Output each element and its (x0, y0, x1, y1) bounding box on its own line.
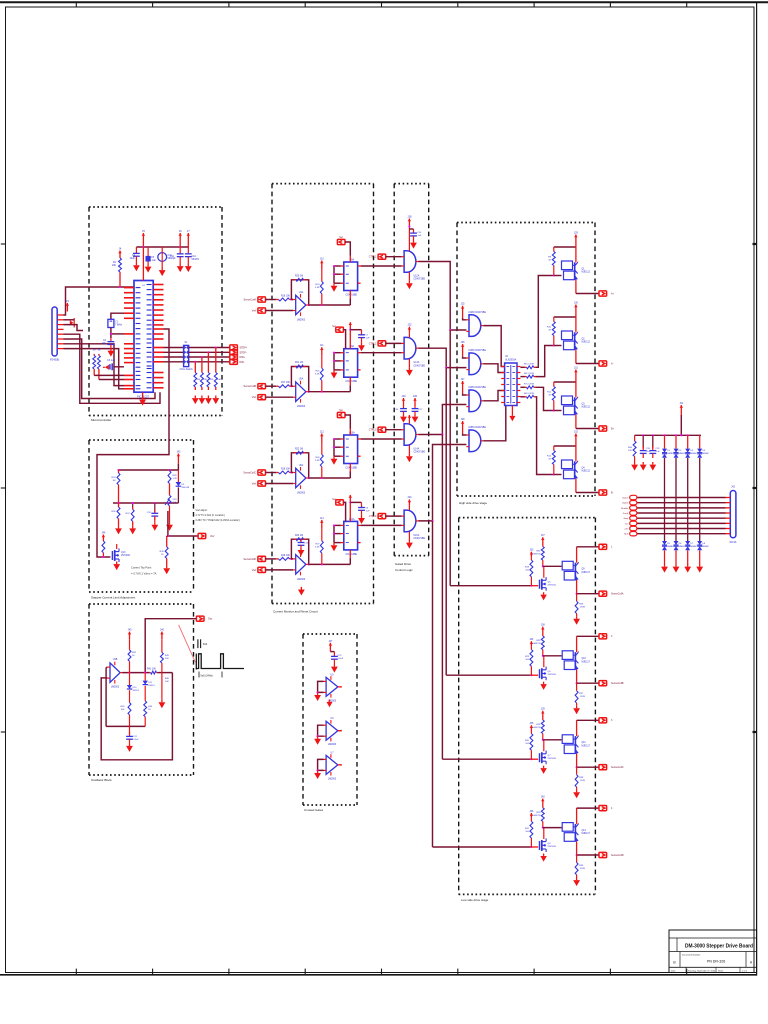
header Set4 (336, 500, 344, 505)
header STEP+ (230, 345, 238, 350)
capacitor C2 (110, 338, 112, 342)
op-amp U4B (110, 663, 120, 683)
svg-text:MMBZ: MMBZ (679, 453, 686, 455)
svg-text:R18 10K: R18 10K (281, 469, 290, 471)
svg-text:U13A: U13A (414, 361, 420, 364)
svg-text:J30: J30 (574, 301, 579, 304)
header DIR+ (230, 354, 238, 359)
junction (576, 593, 578, 595)
wire to inverting input (291, 385, 293, 387)
svg-text:Vref adjust:: Vref adjust: (196, 509, 208, 512)
wire to capacitor (350, 501, 361, 503)
or gate U13B CD4071BE (469, 353, 481, 375)
header P2 (630, 500, 637, 504)
wire J2 pin8 (64, 349, 125, 389)
wire to sense header (577, 682, 600, 684)
transistor Q4 MJD112 (562, 460, 573, 469)
or gate U15B CD4071BE (469, 430, 481, 452)
header B- (599, 490, 607, 495)
capacitor C12 (187, 247, 189, 254)
dip switch S1 (184, 345, 189, 366)
wire collector to header (576, 636, 578, 650)
flip-flop right pins (358, 265, 361, 267)
svg-text:.1uF: .1uF (151, 259, 156, 262)
resistor R43 (129, 690, 131, 702)
svg-text:10K: 10K (628, 450, 632, 452)
wire osc output (145, 619, 196, 674)
svg-text:.1/5W: .1/5W (579, 868, 586, 870)
capacitor C10 (161, 247, 163, 252)
wire input2 (265, 569, 293, 571)
svg-text:.01uF: .01uF (133, 739, 139, 741)
capacitor C9 (361, 502, 363, 507)
header SenseCoilD (258, 556, 266, 561)
diode D1 MMBZ (664, 435, 666, 448)
and gate bottom pin (408, 359, 410, 367)
header Set2 (336, 327, 344, 332)
transistor Q2 emitter (575, 352, 577, 364)
svg-text:J27: J27 (461, 378, 466, 381)
left margin zone ticks (1, 243, 6, 245)
svg-text:MJD117: MJD117 (582, 745, 591, 747)
svg-text:R17 10K: R17 10K (281, 382, 290, 384)
svg-text:J29: J29 (574, 231, 579, 234)
power rail (554, 445, 576, 447)
diode D4 MMBZ (699, 435, 701, 448)
title block frame (669, 930, 757, 973)
wire node (113, 502, 178, 504)
svg-text:U6A: U6A (299, 464, 304, 467)
junction (576, 854, 578, 856)
svg-text:Enable: Enable (621, 508, 629, 510)
ground (333, 664, 335, 667)
resistor R1 (119, 251, 121, 257)
wire input2 (265, 310, 293, 312)
transistor Q1 MJD112 (562, 261, 573, 270)
wire stage input (446, 674, 531, 676)
junction (290, 471, 292, 473)
wire gate1 output (418, 262, 466, 331)
and gate bottom pin (408, 532, 410, 540)
and gate top pin (408, 505, 410, 510)
junction (308, 391, 310, 393)
transistor Q8 2N7000L (539, 841, 541, 850)
flip-flop bottom pin (349, 291, 351, 299)
ground (179, 264, 181, 267)
wire bus to stage4 (432, 521, 434, 847)
wire outer loop (101, 673, 172, 760)
wire gate2 output (418, 348, 466, 367)
resistor R42 (129, 639, 131, 650)
resistor R41 (150, 672, 151, 674)
ground (333, 543, 335, 546)
svg-text:1N914: 1N914 (148, 685, 155, 687)
wire gate (531, 585, 538, 587)
header Vref2 (258, 395, 266, 400)
svg-text:Vref: Vref (252, 483, 257, 486)
ground (664, 564, 666, 567)
svg-text:R22 1M: R22 1M (295, 449, 303, 451)
spare output stub (338, 764, 341, 766)
U1 pin name text (136, 287, 141, 289)
U2 left pins (501, 366, 504, 368)
svg-text:CD4071BE: CD4071BE (414, 365, 426, 367)
U2 pin name text (506, 366, 509, 368)
op-amp U5C spare (326, 721, 338, 740)
power rail (554, 246, 576, 248)
sheet border outer bottom (0, 974, 757, 976)
junction (317, 691, 319, 693)
header SenseCoilA (599, 591, 607, 596)
output drive section box (459, 517, 596, 519)
junction (290, 558, 292, 560)
svg-text:J44: J44 (101, 532, 106, 535)
svg-text:J18: J18 (407, 214, 412, 218)
ground (634, 462, 636, 465)
junction (530, 585, 532, 587)
ground (329, 700, 331, 702)
svg-text:Set: Set (339, 236, 343, 239)
resistor R23 (294, 538, 296, 540)
ground (543, 766, 545, 768)
wire input loop (318, 725, 324, 736)
junction (445, 367, 447, 369)
wire flip-flop input tie (334, 438, 341, 440)
junction (321, 304, 323, 306)
and gate U12A CD4071BE (404, 251, 416, 273)
junction (142, 246, 144, 248)
svg-text:CTRL3: CTRL3 (369, 429, 377, 432)
ground (300, 547, 302, 550)
wire Q13 drain (116, 544, 118, 549)
capacitor C22 (333, 652, 335, 657)
resistor R37 (132, 503, 134, 507)
diode D11 (144, 673, 146, 681)
capacitor C17 (414, 406, 416, 409)
svg-text:LM2903: LM2903 (111, 687, 120, 689)
capacitor C3 (113, 366, 124, 368)
svg-text:.01uF: .01uF (338, 658, 344, 660)
wire input2 (265, 396, 293, 398)
svg-text:J34: J34 (529, 638, 534, 641)
transistor Q7 2N7000L (539, 753, 541, 762)
svg-text:1.2K: 1.2K (173, 478, 178, 480)
top margin zone ticks (75, 2, 77, 7)
svg-text:J39: J39 (541, 708, 546, 711)
wire (520, 396, 525, 398)
power J27 (462, 381, 464, 393)
ground (413, 240, 415, 243)
ground (154, 522, 156, 525)
junction (576, 766, 578, 768)
svg-text:MMBZ: MMBZ (690, 453, 697, 455)
power rail (635, 434, 701, 436)
wire J2 pin2 (64, 319, 75, 321)
resistor R21 (294, 366, 296, 368)
svg-text:J33: J33 (529, 549, 534, 552)
header Vref4 (258, 567, 266, 572)
svg-text:8uS: 8uS (203, 643, 208, 646)
resistor R39 (576, 855, 578, 863)
svg-text:3.3K: 3.3K (315, 546, 320, 548)
svg-text:1N4148: 1N4148 (181, 487, 189, 489)
svg-text:R21 1M: R21 1M (295, 362, 303, 364)
transistor Q10 MJD117 (562, 651, 573, 660)
svg-text:U15B CD4071BE: U15B CD4071BE (468, 427, 486, 429)
resistor R36 (166, 536, 168, 547)
svg-text:10K: 10K (165, 658, 169, 660)
svg-text:J37: J37 (541, 534, 546, 537)
flip-flop bottom pin (349, 550, 351, 558)
junction (675, 512, 677, 514)
capacitor C7 (361, 330, 363, 335)
ground (201, 396, 203, 399)
ground (118, 526, 120, 529)
wire clock (349, 558, 351, 565)
svg-text:CTRL2: CTRL2 (369, 342, 377, 345)
trimmer VR1 (168, 495, 171, 506)
svg-text:1M: 1M (112, 480, 115, 482)
junction (119, 286, 121, 288)
svg-text:R19 10K: R19 10K (281, 555, 290, 557)
transistor Q13 2N7000L (111, 551, 113, 560)
ground (576, 790, 578, 793)
junction (128, 672, 130, 674)
wire gate (531, 758, 538, 760)
header Vref out (198, 533, 206, 538)
power rail (554, 381, 576, 383)
svg-text:10uF: 10uF (130, 257, 136, 260)
wire flip-flop input tie (334, 524, 341, 526)
svg-text:LM2903: LM2903 (328, 778, 337, 780)
ground (317, 770, 319, 773)
svg-text:R6 2.2KW: R6 2.2KW (524, 373, 535, 375)
power rail above U1 (136, 246, 188, 248)
transistor emitter (576, 843, 578, 855)
header B+ (599, 426, 607, 431)
junction (132, 502, 134, 504)
transistor Q3 emitter (575, 417, 577, 429)
header CTRL2 (378, 341, 386, 346)
power J5 (142, 233, 144, 247)
svg-text:+5V: +5V (624, 529, 628, 531)
ground (675, 564, 677, 567)
svg-text:J31: J31 (574, 366, 579, 369)
svg-text:CD4013BE: CD4013BE (346, 468, 358, 470)
wire ctrl (386, 342, 402, 344)
wire base (554, 474, 562, 476)
svg-text:10K: 10K (121, 709, 125, 711)
U1 right pins (153, 284, 163, 286)
wire collector to header (576, 720, 578, 734)
junction (431, 520, 433, 522)
wire Q to gate (361, 352, 402, 354)
svg-text:A-: A- (611, 363, 614, 366)
header Set1 (337, 239, 345, 244)
resistor R5 (525, 366, 527, 368)
svg-text:MJD112: MJD112 (582, 272, 591, 274)
svg-text:9uS (24Hz): 9uS (24Hz) (201, 675, 213, 678)
wire bus 5 (637, 517, 726, 519)
svg-text:ULN2003A: ULN2003A (505, 358, 517, 361)
svg-text:Set: Set (332, 498, 336, 501)
svg-text:Unused Gates: Unused Gates (304, 808, 324, 812)
svg-text:CD4071BE: CD4071BE (414, 538, 426, 540)
ground (110, 348, 112, 351)
ground (408, 367, 410, 370)
flip-flop top pin (349, 256, 351, 263)
U2 right pins (517, 366, 520, 368)
wire feedback up (291, 539, 308, 564)
or gate U12B CD4071BE (469, 315, 481, 337)
svg-text:Control Logic: Control Logic (395, 568, 413, 572)
connector J42 pins (726, 497, 731, 499)
wire op-amp output (308, 563, 350, 565)
oscillator section box (89, 603, 194, 605)
wire base (543, 655, 562, 657)
wire bus 1 (637, 497, 726, 499)
junction (553, 274, 555, 276)
ground (361, 343, 363, 346)
resistor R9 (553, 247, 555, 252)
resistor R6 (207, 352, 209, 372)
svg-text:Set: Set (332, 325, 336, 328)
ground (543, 592, 545, 594)
svg-text:Opto1: Opto1 (622, 497, 629, 500)
svg-text:Low side drive stage: Low side drive stage (461, 898, 489, 902)
pointer line (179, 625, 196, 662)
wire op-amp output (308, 304, 350, 306)
svg-text:10K: 10K (173, 502, 177, 504)
resistor R8 (525, 396, 527, 398)
header OUT1 (599, 544, 607, 549)
resistor R17 (276, 385, 278, 387)
svg-text:U12A: U12A (414, 275, 420, 278)
diode D8 MMBZ (699, 529, 701, 541)
pulse waveform (195, 654, 197, 670)
ground (215, 396, 217, 399)
wire flip-flop input tie (334, 352, 341, 354)
svg-text:J20: J20 (413, 394, 418, 398)
ground (161, 700, 163, 703)
connector J2 pins (57, 314, 63, 316)
header CTRL3 (378, 427, 386, 432)
flip-flop top pin (349, 429, 351, 436)
svg-text:U13B CD4071BE: U13B CD4071BE (468, 350, 486, 352)
junction (663, 496, 665, 498)
svg-text:Current Trip Point: Current Trip Point (131, 566, 152, 570)
svg-text:J12: J12 (320, 431, 325, 434)
svg-text:Vref: Vref (252, 396, 257, 399)
svg-text:3.3K: 3.3K (315, 460, 320, 462)
transistor Q6 2N7000L (539, 669, 541, 678)
ground (187, 264, 189, 267)
header SenseCoilD (599, 852, 607, 857)
wire to output header (576, 363, 599, 365)
svg-text:SenseCoilA: SenseCoilA (244, 299, 257, 302)
node arrow marker (70, 320, 74, 325)
ground (207, 396, 209, 399)
wire power to rail (680, 415, 682, 435)
ground (576, 706, 578, 709)
svg-text:.1uF: .1uF (365, 338, 370, 340)
flip-flop right pins (358, 352, 361, 354)
wire base (543, 739, 562, 741)
wire clock (349, 472, 351, 479)
power J20 (414, 398, 416, 406)
svg-text:MJD117: MJD117 (582, 661, 591, 663)
resistor R36 (576, 594, 578, 602)
svg-text:RJ45(8): RJ45(8) (50, 358, 59, 362)
flip-flop left pins (341, 438, 344, 440)
svg-text:20p: 20p (102, 342, 107, 345)
wire stage input (433, 846, 532, 848)
resistor R12 (553, 446, 555, 451)
header SenseCoilA (258, 297, 266, 302)
resistor R7 (215, 348, 217, 373)
resistor R18 (276, 472, 278, 474)
svg-text:B-: B- (611, 492, 614, 495)
capacitor C4 (135, 247, 137, 253)
svg-text:DIR-: DIR- (240, 361, 245, 364)
flip-flop right pins (358, 524, 361, 526)
header CTRL4 (378, 514, 386, 519)
svg-text:.1uF: .1uF (655, 451, 660, 453)
svg-text:U14A: U14A (414, 448, 420, 451)
header OUT4 (599, 806, 607, 811)
svg-text:10uF: 10uF (646, 451, 652, 453)
junction (317, 735, 319, 737)
header SenseCoilB (599, 681, 607, 686)
power J19 (403, 398, 405, 406)
wire (520, 376, 525, 378)
wire J2 pin6 down (64, 339, 156, 399)
diode D2 MMBZ (675, 435, 677, 448)
diode D3 MMBZ (687, 435, 689, 448)
svg-text:.1/5W: .1/5W (579, 780, 586, 782)
ground (129, 743, 131, 746)
svg-text:R20 1M: R20 1M (295, 276, 303, 278)
wire bus 8 (637, 533, 726, 535)
svg-text:CTRL4: CTRL4 (369, 515, 377, 518)
microcontroller U1 (134, 281, 153, 393)
junction (117, 502, 119, 504)
resistor R37 (576, 683, 578, 691)
waveform marks (197, 639, 199, 648)
svg-text:J11: J11 (320, 344, 324, 347)
wire crystal top (111, 313, 124, 319)
svg-text:MMBZ: MMBZ (702, 546, 709, 548)
ground (333, 370, 335, 373)
svg-text:J25: J25 (461, 303, 466, 306)
transistor Q4 emitter (575, 481, 577, 493)
capacitor C21 (129, 726, 131, 734)
flip-flop U10A CD4013BE (344, 435, 358, 464)
or gate U14B CD4071BE (469, 390, 481, 412)
wire input (265, 472, 276, 474)
wire clock (349, 299, 351, 306)
diode D9 1N4148 (177, 470, 179, 482)
ground (142, 397, 144, 400)
junction (542, 565, 544, 567)
power J6 (179, 233, 181, 247)
ground (687, 564, 689, 567)
ground (576, 878, 578, 881)
transistor Q12 MJD117 (562, 823, 573, 832)
and gate top pin (408, 333, 410, 338)
diode D7 MMBZ (687, 518, 689, 541)
flip-flop bottom pin (349, 377, 351, 385)
